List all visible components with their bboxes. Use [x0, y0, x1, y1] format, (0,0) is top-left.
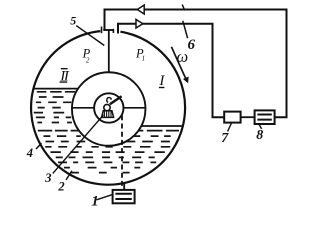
connector drum to heater 1	[123, 183, 125, 190]
hub circle	[94, 93, 123, 122]
tick on top line	[182, 5, 185, 11]
svg-text:4: 4	[26, 146, 33, 160]
svg-text:6: 6	[188, 37, 196, 53]
svg-text:7: 7	[221, 131, 229, 146]
liquid hatching	[34, 92, 179, 173]
hub pivot	[104, 104, 110, 110]
leader 4	[36, 143, 42, 149]
spoke right	[123, 107, 145, 109]
gland tick right	[112, 29, 114, 33]
leader 8	[259, 125, 261, 129]
leader 2	[66, 171, 72, 180]
leader 5	[76, 26, 104, 46]
spoke left	[72, 107, 94, 109]
rotation arrow arc	[172, 47, 186, 78]
gland tick left	[101, 27, 103, 34]
central pipe into hub	[108, 31, 110, 73]
centerline dashed	[121, 115, 123, 189]
heater 1	[113, 190, 135, 203]
overline and underline of label II	[60, 69, 68, 82]
svg-text:ω: ω	[177, 47, 189, 66]
hub curl	[107, 98, 111, 103]
svg-text:3: 3	[44, 171, 51, 185]
flow arrow right on second line	[136, 19, 143, 28]
svg-text:2: 2	[57, 179, 64, 193]
leader for label 6 crossing second line	[183, 21, 188, 38]
flow arrow left on top line	[137, 5, 144, 14]
svg-text:2: 2	[86, 56, 90, 64]
underline of label I	[159, 87, 165, 89]
outer casing 4 (drum shell)	[31, 31, 185, 185]
svg-text:8: 8	[256, 128, 263, 143]
svg-text:1: 1	[91, 194, 99, 210]
gland T-bar	[103, 29, 114, 31]
wire: vapor line from drum chamber to pump 7 (second line)	[118, 24, 224, 118]
wire: return line from cooler 8 to drum (top line)	[105, 10, 287, 118]
liquid level chamber I	[141, 125, 181, 127]
svg-text:I: I	[158, 73, 165, 89]
leader 3	[53, 115, 104, 174]
svg-text:5: 5	[70, 14, 76, 28]
leader 7	[228, 123, 232, 132]
hub needle	[110, 96, 122, 104]
hub weight	[102, 111, 114, 118]
pump 7	[224, 112, 240, 123]
wire: connector pump 7 to cooler 8	[241, 116, 255, 118]
liquid level chamber II	[33, 88, 78, 90]
rotor ring 2	[72, 72, 146, 146]
leader 1	[97, 195, 113, 200]
svg-text:1: 1	[142, 55, 146, 63]
cooler 8	[255, 110, 275, 124]
